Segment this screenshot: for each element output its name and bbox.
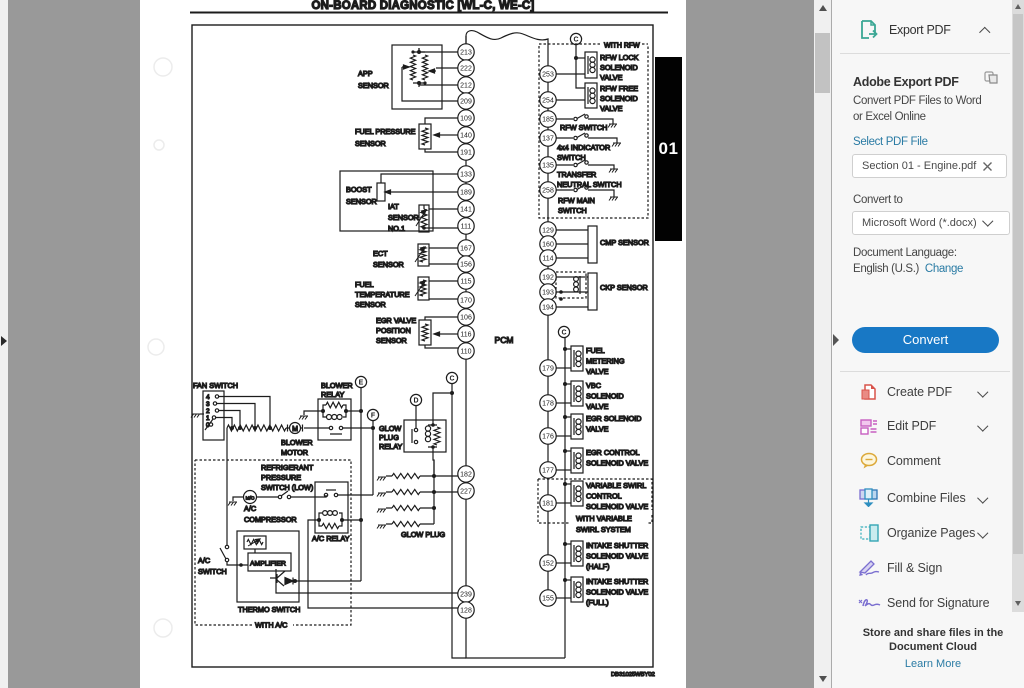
svg-text:192: 192 xyxy=(542,275,554,282)
svg-text:RELAY: RELAY xyxy=(321,390,345,399)
svg-text:1: 1 xyxy=(206,415,210,422)
svg-text:254: 254 xyxy=(542,98,554,105)
svg-text:VALVE: VALVE xyxy=(600,104,623,113)
svg-text:BLOWER: BLOWER xyxy=(321,381,353,390)
svg-text:PLUG: PLUG xyxy=(379,433,399,442)
svg-text:2: 2 xyxy=(206,408,210,415)
svg-text:160: 160 xyxy=(542,242,554,249)
svg-text:WITH RFW: WITH RFW xyxy=(604,43,640,50)
svg-text:156: 156 xyxy=(460,262,472,269)
svg-text:SOLENOID: SOLENOID xyxy=(600,94,638,103)
svg-text:TRANSFER: TRANSFER xyxy=(557,170,596,179)
svg-text:178: 178 xyxy=(542,401,554,408)
svg-text:GLOW: GLOW xyxy=(379,424,401,433)
svg-text:E: E xyxy=(359,380,364,387)
svg-text:111: 111 xyxy=(461,224,472,231)
svg-text:189: 189 xyxy=(460,190,472,197)
svg-text:D: D xyxy=(413,398,418,405)
svg-text:VBC: VBC xyxy=(586,381,601,390)
svg-text:167: 167 xyxy=(460,246,472,253)
svg-text:253: 253 xyxy=(542,72,554,79)
svg-text:4x4 INDICATOR: 4x4 INDICATOR xyxy=(557,143,610,152)
svg-text:135: 135 xyxy=(542,163,554,170)
svg-text:182: 182 xyxy=(460,472,472,479)
svg-text:VALVE: VALVE xyxy=(600,73,623,82)
svg-text:141: 141 xyxy=(460,207,472,214)
svg-text:COMPRESSOR: COMPRESSOR xyxy=(244,515,297,524)
svg-text:PRESSURE: PRESSURE xyxy=(261,473,301,482)
svg-text:152: 152 xyxy=(542,561,554,568)
svg-text:179: 179 xyxy=(542,366,554,373)
svg-text:191: 191 xyxy=(460,150,472,157)
svg-text:NO.1: NO.1 xyxy=(388,224,405,233)
svg-text:109: 109 xyxy=(460,116,472,123)
svg-text:SENSOR: SENSOR xyxy=(355,300,386,309)
svg-text:227: 227 xyxy=(460,489,472,496)
svg-text:IAT: IAT xyxy=(388,202,399,211)
svg-text:RELAY: RELAY xyxy=(379,442,403,451)
svg-text:114: 114 xyxy=(542,256,553,263)
svg-text:FUEL: FUEL xyxy=(586,346,605,355)
svg-text:PCM: PCM xyxy=(495,335,514,345)
svg-text:209: 209 xyxy=(460,99,472,106)
svg-text:INTAKE SHUTTER: INTAKE SHUTTER xyxy=(586,541,648,550)
svg-text:EGR SOLENOID: EGR SOLENOID xyxy=(586,414,642,423)
svg-text:EGR VALVE: EGR VALVE xyxy=(376,316,416,325)
svg-text:106: 106 xyxy=(460,315,472,322)
svg-text:SWIRL SYSTEM: SWIRL SYSTEM xyxy=(576,525,631,534)
svg-text:239: 239 xyxy=(460,592,472,599)
svg-text:194: 194 xyxy=(542,305,554,312)
svg-text:155: 155 xyxy=(542,596,554,603)
svg-text:A/C: A/C xyxy=(244,504,256,513)
svg-text:110: 110 xyxy=(460,349,471,356)
svg-text:AMPLIFIER: AMPLIFIER xyxy=(250,561,286,568)
svg-text:RFW SWITCH: RFW SWITCH xyxy=(560,123,607,132)
svg-text:SENSOR: SENSOR xyxy=(376,336,407,345)
svg-text:176: 176 xyxy=(542,434,554,441)
svg-text:TEMPERATURE: TEMPERATURE xyxy=(355,290,410,299)
svg-text:WITH A/C: WITH A/C xyxy=(255,621,287,630)
svg-text:FUEL PRESSURE: FUEL PRESSURE xyxy=(355,127,416,136)
svg-text:SENSOR: SENSOR xyxy=(346,197,377,206)
svg-text:212: 212 xyxy=(460,83,472,90)
svg-text:(HALF): (HALF) xyxy=(586,562,610,571)
svg-text:170: 170 xyxy=(460,298,472,305)
svg-text:A/C: A/C xyxy=(198,556,210,565)
svg-text:129: 129 xyxy=(542,228,554,235)
svg-text:C: C xyxy=(573,37,578,44)
svg-text:140: 140 xyxy=(460,133,472,140)
svg-text:RFW FREE: RFW FREE xyxy=(600,84,638,93)
svg-text:(FULL): (FULL) xyxy=(586,598,609,607)
svg-text:BLOWER: BLOWER xyxy=(281,438,313,447)
svg-text:3: 3 xyxy=(206,401,210,408)
svg-text:SOLENOID VALVE: SOLENOID VALVE xyxy=(586,552,648,561)
svg-text:193: 193 xyxy=(542,290,554,297)
svg-text:4: 4 xyxy=(206,394,210,401)
svg-text:SOLENOID VALVE: SOLENOID VALVE xyxy=(586,502,648,511)
svg-text:116: 116 xyxy=(460,332,471,339)
svg-text:ON-BOARD DIAGNOSTIC [WL-C, WE-: ON-BOARD DIAGNOSTIC [WL-C, WE-C] xyxy=(312,0,535,12)
svg-text:POSITION: POSITION xyxy=(376,326,411,335)
svg-text:METERING: METERING xyxy=(586,357,625,366)
svg-text:133: 133 xyxy=(460,172,472,179)
svg-text:ECT: ECT xyxy=(373,249,388,258)
svg-text:A/C RELAY: A/C RELAY xyxy=(312,534,350,543)
svg-text:VALVE: VALVE xyxy=(586,425,609,434)
svg-text:DB31025WBY02: DB31025WBY02 xyxy=(611,672,655,678)
svg-text:SENSOR: SENSOR xyxy=(373,260,404,269)
svg-text:258: 258 xyxy=(542,188,554,195)
svg-text:VALVE: VALVE xyxy=(586,402,609,411)
svg-text:SENSOR: SENSOR xyxy=(355,139,386,148)
svg-text:NEUTRAL SWITCH: NEUTRAL SWITCH xyxy=(557,180,622,189)
svg-text:CMP SENSOR: CMP SENSOR xyxy=(600,238,649,247)
svg-text:115: 115 xyxy=(460,279,471,286)
svg-text:EGR CONTROL: EGR CONTROL xyxy=(586,448,640,457)
svg-text:SWITCH: SWITCH xyxy=(198,567,227,576)
svg-text:REFRIGERANT: REFRIGERANT xyxy=(261,463,314,472)
svg-text:VARIABLE SWIRL: VARIABLE SWIRL xyxy=(586,481,646,490)
svg-text:THERMO SWITCH: THERMO SWITCH xyxy=(238,605,300,614)
svg-text:INTAKE SHUTTER: INTAKE SHUTTER xyxy=(586,577,648,586)
svg-text:SENSOR: SENSOR xyxy=(388,213,419,222)
svg-text:222: 222 xyxy=(460,66,472,73)
svg-text:SWITCH: SWITCH xyxy=(558,206,587,215)
svg-text:SOLENOID: SOLENOID xyxy=(586,392,624,401)
svg-text:APP: APP xyxy=(358,69,373,78)
svg-text:BOOST: BOOST xyxy=(346,185,372,194)
svg-text:GLOW PLUG: GLOW PLUG xyxy=(401,530,446,539)
svg-text:VALVE: VALVE xyxy=(586,367,609,376)
svg-text:MOTOR: MOTOR xyxy=(281,448,308,457)
svg-text:FUEL: FUEL xyxy=(355,280,374,289)
svg-text:SOLENOID VALVE: SOLENOID VALVE xyxy=(586,588,648,597)
svg-text:181: 181 xyxy=(542,501,554,508)
svg-text:M: M xyxy=(292,426,298,433)
svg-text:C: C xyxy=(561,330,566,337)
svg-text:C: C xyxy=(449,376,454,383)
svg-text:SENSOR: SENSOR xyxy=(358,81,389,90)
svg-text:CKP SENSOR: CKP SENSOR xyxy=(600,283,648,292)
svg-text:185: 185 xyxy=(542,117,554,124)
svg-text:137: 137 xyxy=(542,136,554,143)
svg-text:213: 213 xyxy=(460,50,472,57)
svg-text:SWITCH: SWITCH xyxy=(557,153,586,162)
svg-text:RFW MAIN: RFW MAIN xyxy=(558,196,595,205)
svg-text:SOLENOID: SOLENOID xyxy=(600,63,638,72)
svg-text:128: 128 xyxy=(460,608,472,615)
svg-text:M/C: M/C xyxy=(246,496,255,502)
svg-text:F: F xyxy=(371,413,376,420)
svg-text:FAN SWITCH: FAN SWITCH xyxy=(193,381,238,390)
svg-text:RFW LOCK: RFW LOCK xyxy=(600,53,639,62)
svg-text:177: 177 xyxy=(542,468,554,475)
svg-text:SWITCH (LOW): SWITCH (LOW) xyxy=(261,483,313,492)
svg-text:SOLENOID VALVE: SOLENOID VALVE xyxy=(586,459,648,468)
svg-text:CONTROL: CONTROL xyxy=(586,492,622,501)
svg-text:WITH VARIABLE: WITH VARIABLE xyxy=(576,514,632,523)
